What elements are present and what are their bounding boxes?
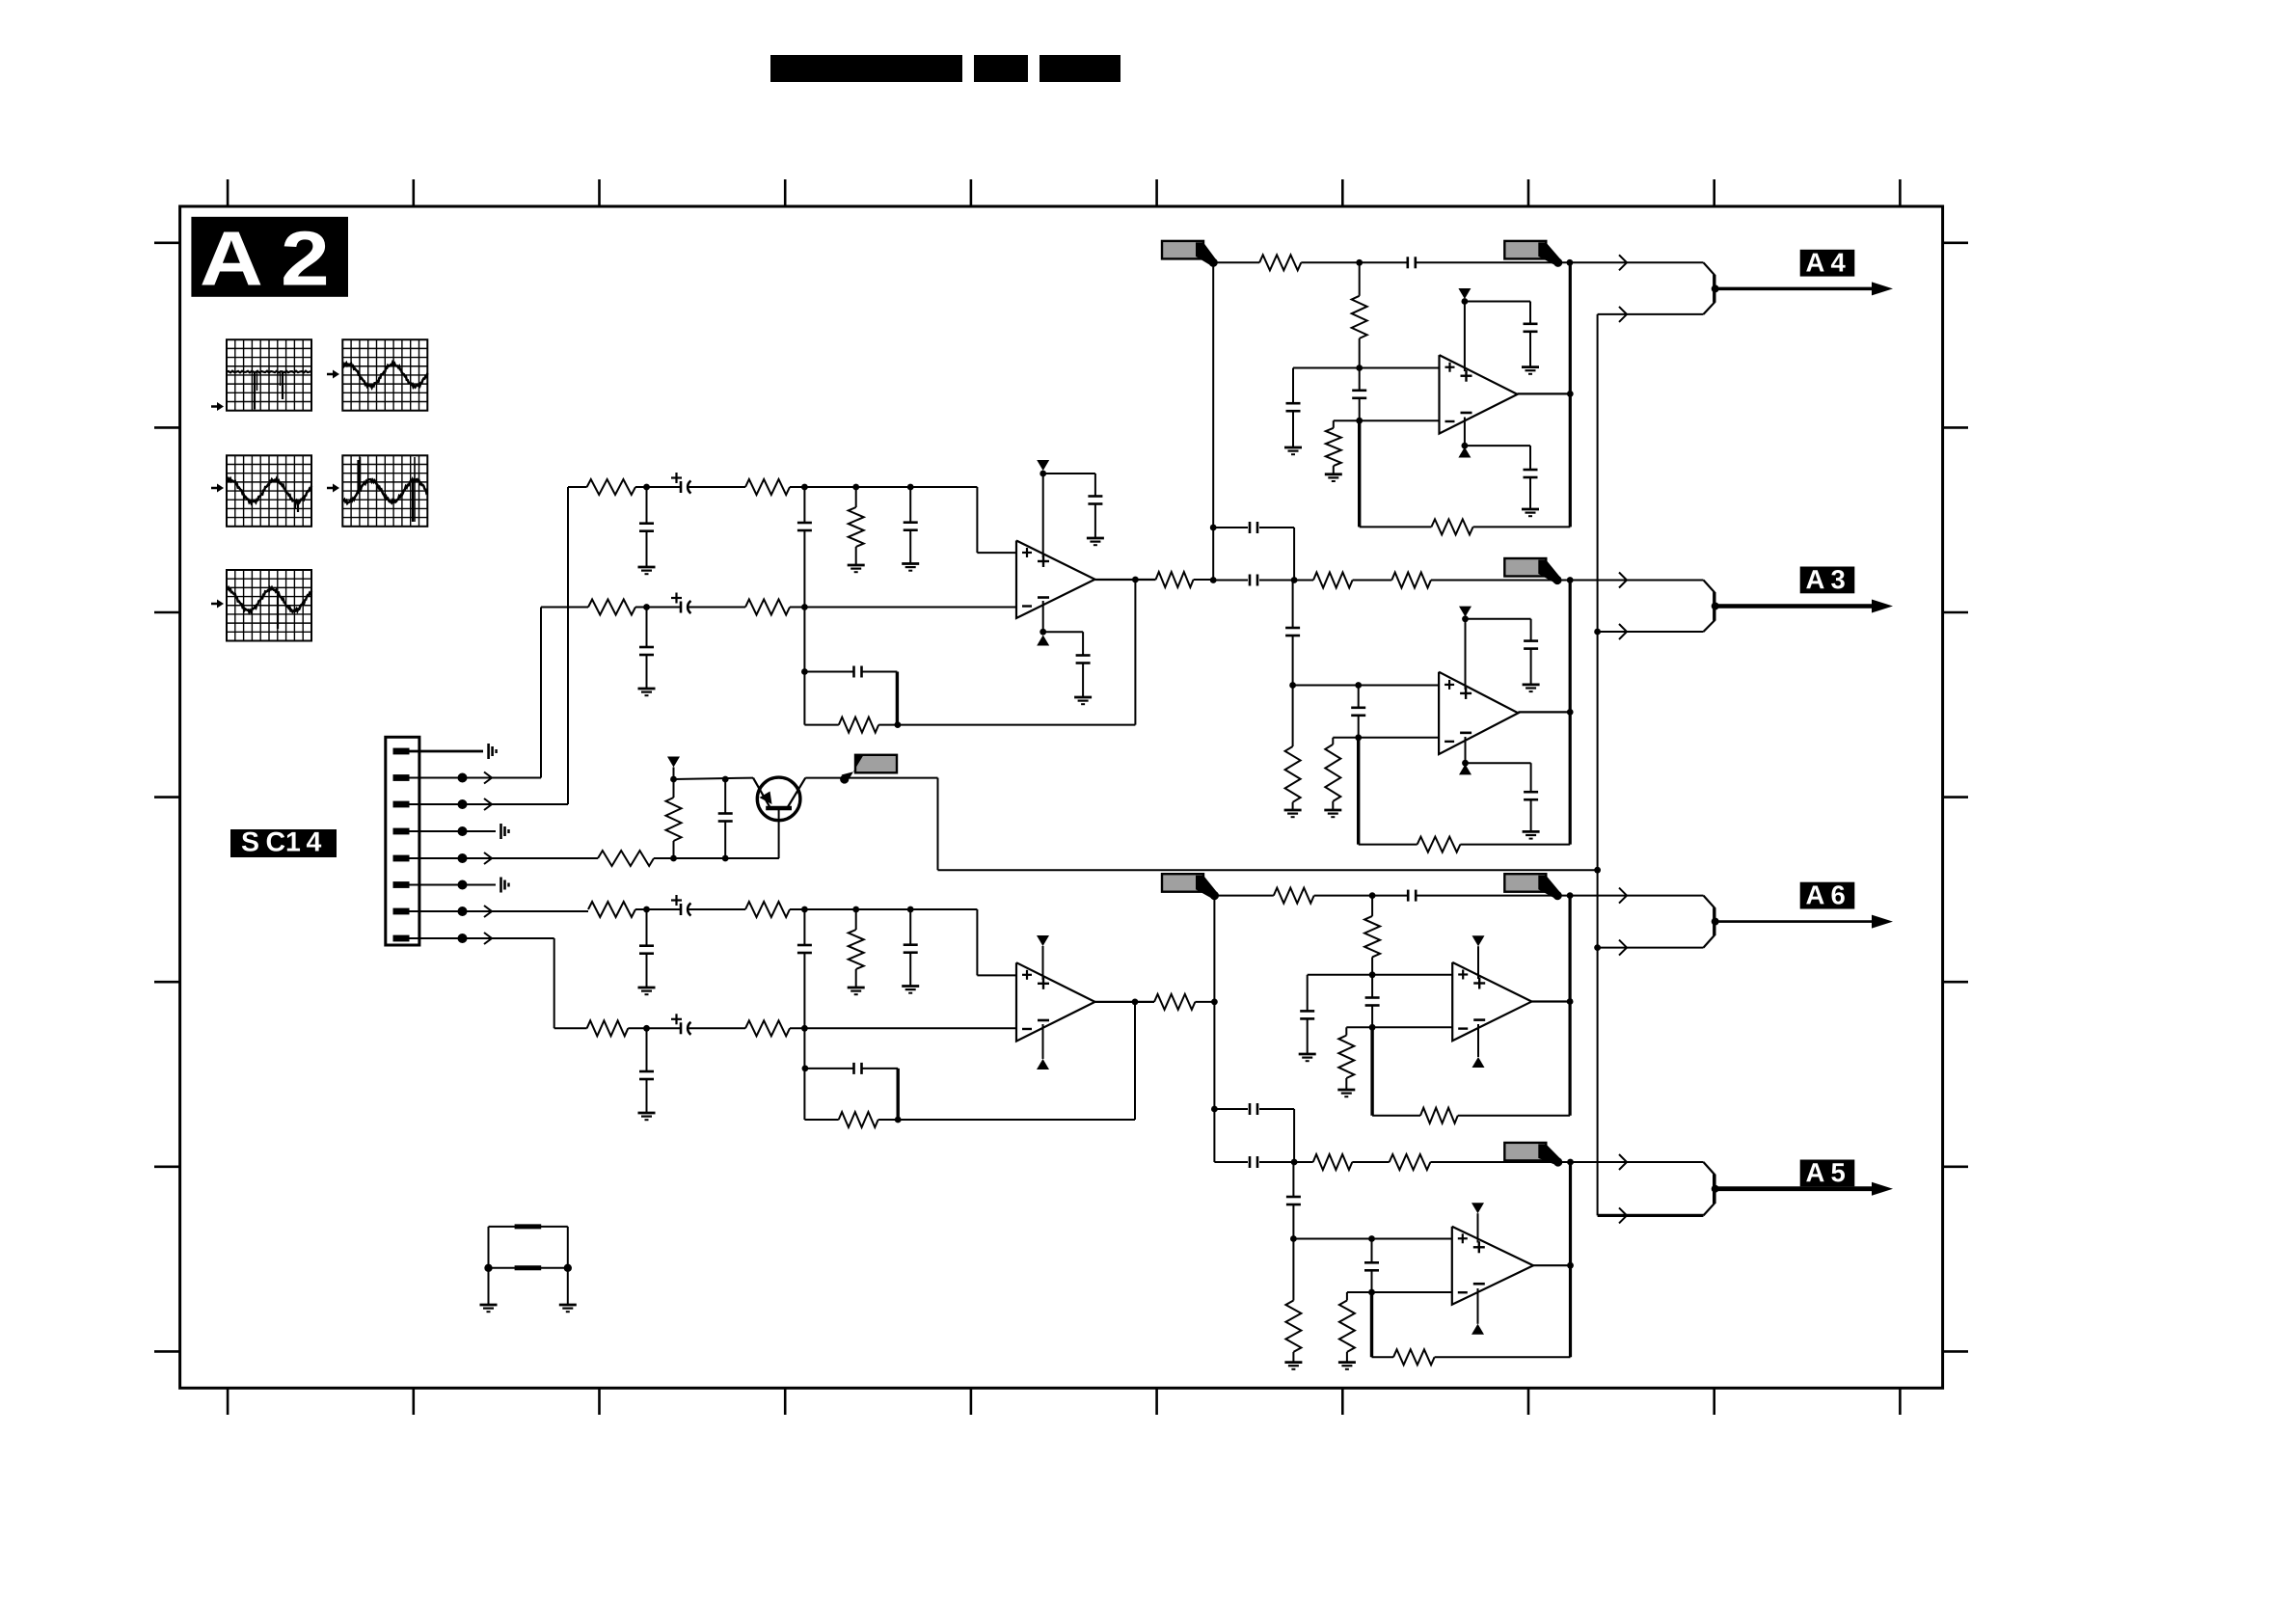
node N33 (1210, 525, 1217, 531)
waveform W5 arrow (211, 600, 224, 609)
wire supply decoupling (1466, 619, 1531, 641)
node N41 (1462, 760, 1469, 767)
node N20 (643, 1025, 650, 1032)
frame tick marks bottom (228, 1388, 1900, 1415)
node N22 (802, 1066, 809, 1072)
wire pin7 (409, 910, 588, 912)
arrow (1619, 573, 1627, 588)
ground (480, 1305, 498, 1312)
node N29 (1356, 418, 1363, 424)
arrow (1619, 307, 1627, 322)
node N30 (U3 out) (1567, 391, 1574, 397)
node N27 (1567, 259, 1574, 266)
resistor R17 (1213, 255, 1360, 270)
arrow (1619, 624, 1627, 639)
flag F1 (service pointer) (1162, 241, 1218, 267)
wire A3 row (1213, 580, 1248, 582)
wire - node to feedback (1370, 1027, 1373, 1115)
node N57 (bus/transistor line) (1594, 867, 1601, 874)
resistor R20 (feedback) (1360, 519, 1571, 534)
node N19 (907, 907, 914, 913)
wire inverting row to op-amp U2 (790, 1027, 1016, 1029)
connector SC14 pin 8 (393, 935, 410, 942)
wire feedback riser (1568, 896, 1571, 1116)
power -supply U2 (1037, 1024, 1049, 1069)
node N36 (1289, 682, 1296, 689)
resistor R24 to ground (1325, 738, 1340, 810)
node N7 (801, 668, 808, 675)
power +supply U3 (1458, 288, 1471, 371)
resistor R3 to ground (849, 487, 864, 565)
node N39 (U4 out) (1567, 709, 1574, 716)
wire pin5 (409, 857, 598, 859)
wire inverting row to op-amp U1 (790, 607, 1016, 609)
output funnel A4 (1704, 262, 1719, 314)
arrow (1619, 1154, 1627, 1170)
node N56 (U6 out) (1567, 1262, 1574, 1269)
resistor R5 (745, 600, 790, 615)
resistor R8 (598, 851, 654, 866)
ground (1324, 810, 1341, 817)
wire + row U6 (1293, 1238, 1451, 1240)
node N32 (1462, 443, 1469, 449)
waveform W3 (sine with spike) (227, 455, 311, 527)
arrow pin2 (484, 772, 492, 784)
wire emitter row (674, 778, 754, 779)
wire supply decoupling (1043, 632, 1083, 656)
capacitor C8 (1088, 497, 1102, 504)
node N9 (1039, 471, 1046, 477)
waveform W4 (sine with spikes) (342, 455, 427, 527)
capacitor C23 (upper loop) (1213, 522, 1294, 581)
node pin8 junction (458, 934, 468, 943)
node N45 (1567, 892, 1574, 899)
ground (902, 564, 919, 571)
label A3 (1800, 567, 1855, 594)
output arrow A6 (1715, 915, 1893, 929)
title bar 3 (redacted) (1039, 55, 1120, 82)
resistor R4 (588, 600, 635, 615)
wire distribution bus (1597, 314, 1599, 1216)
node N43 (U2 out node) (1211, 999, 1218, 1006)
wire drop to A5 row (1213, 1002, 1215, 1162)
resistor R21 (1294, 573, 1391, 588)
ground (902, 987, 919, 993)
ground (1523, 685, 1540, 691)
resistor R1 (587, 479, 635, 495)
wire + row U4 (1293, 685, 1440, 687)
resistor R27 (to + input) (1364, 896, 1380, 975)
power -supply U4 (1459, 737, 1471, 774)
node N51 (1291, 1159, 1298, 1166)
waveform W1 input (flat with sync pulses) (227, 339, 311, 411)
test point TP6 (501, 878, 509, 893)
ground (1087, 538, 1104, 545)
capacitor C32 (upper loop) (1214, 1103, 1294, 1162)
op-amp U5 (1452, 962, 1531, 1041)
arrow pin7 (484, 906, 492, 917)
wire pin2 riser to inverting row (541, 608, 588, 778)
capacitor C18 (1360, 257, 1573, 268)
label A5 (1800, 1160, 1855, 1187)
power +supply U2 (1037, 935, 1049, 980)
resistor R6 (feedback) (804, 717, 898, 733)
resistor R28 to ground (1338, 1027, 1354, 1090)
connector SC14 body (386, 737, 419, 945)
node N49 (bus) (1594, 944, 1601, 951)
capacitor C28 (1524, 792, 1538, 799)
node N2 (801, 484, 808, 491)
capacitor C21 (1524, 324, 1538, 332)
node N53 (1290, 1235, 1297, 1242)
wire riser to A6 row (1213, 896, 1215, 1002)
flag F2 (service pointer) (1504, 241, 1562, 267)
label A4 (1800, 250, 1855, 277)
capacitor C12 to ground (639, 909, 654, 988)
node N54 (1368, 1235, 1375, 1242)
node N6 (801, 604, 808, 610)
wire + row U3 (1293, 367, 1440, 369)
capacitor C31 (between inputs) (1365, 975, 1380, 1028)
ground (1074, 697, 1092, 704)
capacitor C4 to ground (904, 487, 918, 564)
node N23 (895, 1117, 902, 1123)
resistor R32 to ground (1285, 1239, 1301, 1363)
wire A6 row to funnel (1570, 895, 1703, 897)
wire collector (805, 777, 937, 779)
node N14 (670, 776, 677, 783)
resistor R23 to ground (1285, 686, 1301, 811)
wire inverting node to feedback (803, 1028, 805, 1120)
wire feedback riser (1569, 581, 1572, 845)
node N15 (722, 776, 729, 783)
resistor R10 (588, 902, 635, 917)
resistor R26 (1214, 888, 1372, 904)
arrow (1619, 888, 1627, 904)
wire feedback riser (1569, 1162, 1572, 1357)
power +supply U6 (1471, 1203, 1484, 1242)
node N25 (U1 out node) (1210, 577, 1217, 583)
wire pin3 riser to non-inverting row (568, 487, 587, 804)
output arrow A3 (1715, 600, 1893, 613)
arrow (1619, 255, 1627, 270)
resistor R2 (745, 479, 790, 495)
wire non-inverting row to op-amp U1 (790, 487, 1016, 553)
wire supply decoupling (1465, 302, 1530, 325)
capacitor C27 (1524, 641, 1538, 649)
wire (688, 908, 745, 910)
arrow (1619, 1207, 1627, 1223)
node N1 (643, 484, 650, 491)
node N35 (1567, 577, 1574, 583)
power -supply U3 (1458, 418, 1471, 458)
wire U6 output (1533, 1264, 1570, 1266)
node N11 (1132, 577, 1139, 583)
resistor R31 (1390, 1154, 1573, 1170)
node N46 (1369, 971, 1376, 978)
flag F7 (service pointer) (1504, 1143, 1562, 1167)
resistor R15 (feedback) (804, 1112, 898, 1127)
ground (1325, 474, 1342, 481)
wire (688, 607, 745, 609)
wire bus to A6 funnel (1598, 947, 1704, 949)
node N12 (670, 855, 677, 862)
wire feedback return (898, 580, 1136, 725)
waveform W4 arrow (327, 484, 339, 493)
ground (1284, 1363, 1302, 1369)
wire inverting node to feedback (803, 608, 805, 725)
wire (688, 1027, 745, 1029)
waveform W2 arrow (327, 370, 339, 379)
wire bus to A4 funnel (1598, 313, 1704, 315)
capacitor C16 to ground (639, 1028, 654, 1113)
test point TP4 (501, 824, 509, 839)
wire (1195, 1001, 1214, 1003)
node N34 (1291, 577, 1298, 583)
flag F4 (service pointer) (840, 755, 897, 784)
wire (688, 486, 745, 488)
capacitor C26 (between inputs) (1351, 686, 1365, 738)
resistor R34 (feedback) (1372, 1349, 1571, 1365)
node N5 (643, 604, 650, 610)
wire bus to A3 funnel (1598, 631, 1704, 633)
capacitor C2 to ground (639, 487, 654, 567)
wire (1529, 331, 1531, 366)
ground (1522, 367, 1539, 374)
resistor R22 (1391, 573, 1573, 588)
resistor R18 (to + input) (1352, 262, 1367, 367)
wire - node to feedback (1358, 420, 1361, 527)
wire - node to feedback (1370, 1292, 1373, 1357)
capacitor C9 (1076, 656, 1091, 663)
node N28 (1356, 365, 1363, 371)
wire (1194, 579, 1214, 581)
ground (848, 565, 865, 572)
node N48 (U5 out) (1567, 998, 1574, 1005)
node N21 (801, 1025, 808, 1032)
wire - row U4 (1333, 737, 1439, 739)
node pin2 junction (458, 773, 468, 783)
capacitor C13 (between rows) (797, 909, 812, 1028)
node N26 (1356, 259, 1363, 266)
ground (1338, 1363, 1356, 1369)
output arrow A5 (1715, 1182, 1893, 1196)
node pin4 junction (458, 826, 468, 836)
op-amp U2 (1016, 962, 1095, 1041)
power +supply U4 (1459, 607, 1471, 690)
wire U4 output (1518, 711, 1570, 713)
wire (1530, 648, 1532, 685)
resistor R19 to ground (1326, 420, 1341, 474)
power -supply U1 (1037, 601, 1049, 646)
test point TP1 (489, 744, 497, 759)
power +supply U1 (1037, 460, 1049, 557)
capacitor C24 (row) (1250, 575, 1294, 586)
waveform W2 output (sine) (342, 339, 427, 411)
ground (1299, 1054, 1316, 1061)
capacitor C14 to ground (904, 909, 918, 987)
node N47 (1369, 1024, 1376, 1031)
wire collector to bus (938, 778, 1598, 871)
ground (1284, 447, 1302, 454)
flag F6 (service pointer) (1504, 874, 1561, 900)
board label A2 (191, 217, 348, 297)
wire (635, 607, 681, 609)
wire A4 row to funnel (1570, 261, 1704, 263)
node N17 (801, 907, 808, 913)
connector SC14 pin 6 (393, 881, 410, 888)
wire pin4 to test point (409, 830, 496, 832)
capacitor C10 (718, 779, 733, 858)
arrow (1619, 940, 1627, 956)
wire A3 row to funnel (1570, 580, 1703, 582)
capacitor C30 to ground (1300, 975, 1314, 1054)
power -supply U5 (1472, 1024, 1485, 1068)
wire pin3 (409, 803, 568, 805)
power -supply U6 (1471, 1288, 1484, 1335)
resistor R11 (745, 902, 790, 917)
ground (1523, 831, 1540, 838)
node N31 (1462, 298, 1469, 305)
title bar 1 (redacted) (770, 55, 962, 82)
capacitor C33 (row) (1214, 1156, 1294, 1168)
node N8 (895, 721, 902, 728)
waveform W5 (sine with spike) (227, 570, 311, 641)
capacitor C1 (electrolytic) (671, 473, 691, 494)
wire A5 row to funnel (1571, 1161, 1704, 1163)
wire pin6 to test point (409, 884, 496, 886)
flag F3 (service pointer) (1504, 558, 1561, 584)
node N3 (852, 484, 859, 491)
border frame (180, 206, 1943, 1388)
output funnel A6 (1704, 896, 1719, 948)
connector SC14 pin 7 (393, 908, 410, 915)
ground (559, 1305, 577, 1312)
wire - row U6 (1347, 1291, 1452, 1293)
capacitor C3 (between rows) (797, 487, 812, 608)
ground (1337, 1090, 1355, 1096)
wire - row U3 (1334, 420, 1440, 421)
connector label SC14 (230, 829, 337, 857)
node pin6 junction (458, 880, 468, 890)
node pin3 junction (458, 799, 468, 809)
wire pin8 riser to inverting row (554, 938, 587, 1028)
frame tick marks left (154, 243, 180, 1352)
node N18 (852, 907, 859, 913)
resistor R25 (feedback) (1359, 837, 1571, 853)
resistor R13 (587, 1020, 629, 1036)
node N42 (bus) (1594, 629, 1601, 636)
capacitor C25 (to + input) (1285, 581, 1300, 686)
wire non-inverting row to op-amp U2 (790, 909, 1016, 975)
capacitor C6 to ground (639, 608, 654, 690)
output funnel A5 (1704, 1162, 1719, 1215)
node N16 (643, 907, 650, 913)
output arrow A4 (1715, 282, 1893, 295)
wire U1 output (1095, 579, 1156, 581)
capacitor C7 (feedback) (804, 666, 897, 725)
capacitor C22 (1524, 470, 1538, 477)
transistor Q1 (753, 777, 805, 858)
arrow pin8 (484, 933, 492, 944)
node N24 (1132, 999, 1139, 1006)
wire (628, 1027, 681, 1029)
wire riser to A4 row (1212, 262, 1214, 580)
resistor R30 (1294, 1154, 1390, 1170)
wire pin1 to test point (409, 750, 483, 753)
wire U2 output (1095, 1001, 1155, 1003)
resistor R9 (666, 779, 682, 858)
capacitor C15 (electrolytic) (671, 1014, 691, 1035)
ground (1522, 509, 1539, 516)
arrow pin3 (484, 798, 492, 810)
wire (1529, 476, 1531, 509)
wire supply decoupling (1465, 446, 1530, 471)
capacitor C17 (feedback) (805, 1063, 898, 1120)
ground (638, 689, 656, 695)
ground (1284, 810, 1302, 817)
node N37 (1355, 682, 1362, 689)
capacitor C19 to ground (1286, 368, 1301, 448)
connector SC14 pin 3 (393, 801, 410, 808)
wire + row U5 (1308, 974, 1453, 976)
op-amp U4 (1439, 672, 1518, 754)
wire supply decoupling (1466, 763, 1531, 793)
ground (848, 988, 865, 994)
wire (1094, 503, 1096, 538)
resistor R14 (745, 1020, 790, 1036)
ground (638, 988, 656, 994)
wire (635, 908, 681, 910)
op-amp U3 (1440, 355, 1518, 434)
capacitor C35 (between inputs) (1364, 1239, 1379, 1293)
waveform W1 arrow (211, 402, 224, 411)
capacitor C5 (electrolytic) (671, 593, 691, 614)
node pin7 junction (458, 907, 468, 916)
resistor R16 (series out) (1154, 994, 1195, 1010)
capacitor C29 (1372, 890, 1573, 902)
wire bus to A5 funnel (1598, 1214, 1704, 1217)
arrow pin5 (484, 853, 492, 864)
node N4 (907, 484, 914, 491)
ground (638, 567, 656, 574)
label A6 (1800, 882, 1855, 909)
op-amp U6 (1452, 1227, 1533, 1305)
flag F5 (service pointer) (1162, 874, 1219, 900)
waveform W3 arrow (211, 484, 224, 493)
node N10 (1039, 629, 1046, 636)
wire base row (654, 857, 779, 859)
node pin5 junction (458, 853, 468, 863)
frame tick marks right (1943, 243, 1968, 1352)
wire supply decoupling (1043, 474, 1095, 497)
connector SC14 pin 5 (393, 855, 410, 862)
node N44 (1369, 892, 1376, 899)
title bar 2 (redacted) (974, 55, 1028, 82)
resistor R12 to ground (849, 909, 864, 988)
wire - node to feedback (1357, 738, 1360, 845)
power +supply Q1 (667, 757, 680, 780)
wire U5 output (1531, 1000, 1570, 1002)
resistor R29 (feedback) (1372, 1108, 1570, 1123)
connector SC14 pin 4 (393, 828, 410, 835)
wire feedback riser (1569, 262, 1572, 527)
ground (638, 1113, 656, 1120)
capacitor C20 (between inputs) (1352, 368, 1366, 421)
wire pin2 (409, 777, 541, 779)
node N13 (722, 855, 729, 862)
op-amp U1 (1016, 541, 1095, 619)
